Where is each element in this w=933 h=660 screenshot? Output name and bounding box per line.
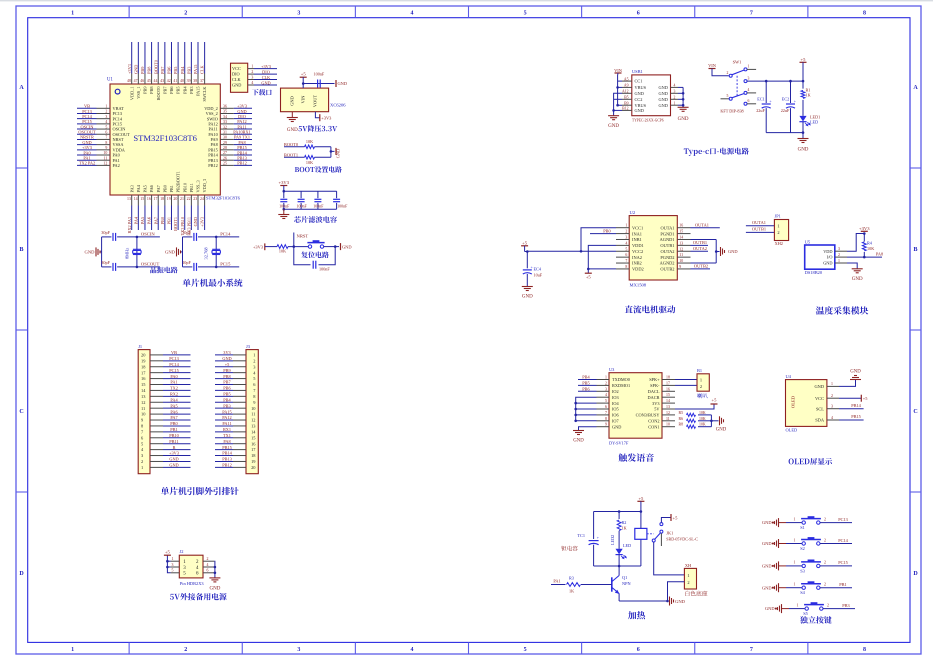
- svg-text:I/O: I/O: [827, 255, 833, 260]
- svg-text:JK1: JK1: [666, 531, 673, 536]
- svg-text:5: 5: [524, 11, 527, 17]
- connector JP1 body: [774, 220, 788, 241]
- svg-text:1: 1: [831, 382, 833, 386]
- svg-text:R8: R8: [679, 423, 684, 427]
- svg-text:4: 4: [105, 120, 107, 124]
- wire gnd bus right: [682, 87, 684, 107]
- wire switch out rail: [747, 80, 803, 82]
- mcu pin 15 PA5 (bottom): [144, 195, 146, 206]
- svg-text:IO3: IO3: [612, 395, 619, 400]
- svg-text:RX2: RX2: [170, 392, 178, 397]
- wire VDD to +3V3: [847, 234, 864, 252]
- wire net PA0: [77, 154, 97, 156]
- svg-text:30: 30: [223, 136, 227, 140]
- svg-text:17: 17: [666, 381, 670, 385]
- power port +5: [164, 554, 171, 556]
- svg-text:PB3: PB3: [186, 67, 191, 74]
- svg-text:2: 2: [824, 538, 826, 542]
- svg-text:7: 7: [105, 136, 107, 140]
- svg-text:VIN: VIN: [301, 95, 306, 104]
- wire bottom branch: [102, 266, 112, 268]
- crystal 32.768: [212, 249, 220, 254]
- button S2: [802, 542, 820, 545]
- svg-text:22uF: 22uF: [756, 108, 765, 113]
- wire net TX3 PB10: [184, 206, 186, 231]
- wire net OSCOUT: [77, 133, 97, 135]
- svg-text:14: 14: [134, 197, 138, 201]
- svg-text:1K: 1K: [806, 93, 811, 98]
- svg-text:B9: B9: [624, 101, 629, 105]
- connector J4 download port body: [231, 63, 248, 92]
- junction: [710, 420, 713, 423]
- mcu pin 44 BOOT0 (top): [157, 74, 159, 85]
- svg-text:CC1: CC1: [635, 79, 643, 84]
- svg-text:GND: GND: [336, 149, 341, 159]
- svg-text:PB12: PB12: [208, 163, 218, 168]
- junction: [618, 565, 621, 568]
- relay contact NC: [660, 530, 663, 533]
- wire net PA9 TX1: [234, 138, 252, 140]
- power port +3V3: [280, 185, 287, 187]
- wire net PB14: [234, 154, 252, 156]
- svg-text:PB11: PB11: [189, 183, 194, 192]
- wire net PC14: [77, 118, 97, 120]
- svg-text:XC6206: XC6206: [330, 103, 346, 108]
- svg-text:A: A: [19, 85, 24, 91]
- svg-text:5: 5: [172, 569, 174, 573]
- svg-text:A: A: [913, 85, 918, 91]
- svg-text:GND: GND: [169, 463, 178, 468]
- wire net +3V3: [163, 455, 191, 457]
- frame row tick: [16, 491, 28, 493]
- switch link dashed: [736, 76, 738, 97]
- ground: [283, 209, 285, 214]
- svg-text:PA7: PA7: [153, 216, 158, 224]
- connector B1 body: [697, 374, 709, 391]
- svg-text:1: 1: [794, 561, 796, 565]
- wire gnd to button: [782, 608, 790, 610]
- svg-text:OUTB1: OUTB1: [752, 226, 766, 231]
- svg-text:10K: 10K: [279, 249, 286, 254]
- frame column tick: [241, 6, 243, 18]
- wire net PB5: [578, 384, 597, 386]
- svg-text:TX1: TX1: [223, 433, 231, 438]
- wire OUTA1: [691, 227, 720, 229]
- svg-text:PA5: PA5: [170, 403, 177, 408]
- svg-text:GND: GND: [522, 295, 533, 300]
- wire R1 to LED1: [802, 100, 804, 116]
- svg-text:+3V3: +3V3: [279, 180, 290, 185]
- wire OUTB1: [691, 244, 709, 246]
- wire VCC to +5: [839, 397, 861, 399]
- svg-text:OUTA1: OUTA1: [695, 222, 709, 227]
- svg-text:GND: GND: [716, 428, 727, 433]
- svg-text:10: 10: [103, 151, 107, 155]
- mcu U1 pin1 marker: [115, 89, 120, 94]
- svg-text:18: 18: [160, 197, 164, 201]
- junction: [574, 408, 577, 411]
- frame column tick: [694, 6, 696, 18]
- caption temperature module: [816, 306, 868, 314]
- power port +5: [860, 395, 862, 402]
- svg-text:R6: R6: [679, 417, 684, 421]
- wire +3V3 to R4: [863, 234, 865, 242]
- svg-text:PA15: PA15: [222, 409, 231, 414]
- svg-text:GND: GND: [85, 250, 96, 255]
- connector XH body: [684, 568, 696, 589]
- svg-text:30pF: 30pF: [182, 230, 191, 235]
- svg-text:9: 9: [105, 146, 107, 150]
- capacitor 30pF: [194, 233, 197, 241]
- wire net PB1: [170, 206, 172, 231]
- svg-text:PB1: PB1: [839, 582, 846, 587]
- wire filter top rail: [284, 190, 337, 192]
- wire gnd to button: [779, 565, 787, 567]
- svg-text:R3: R3: [569, 576, 574, 581]
- svg-text:OUTA2: OUTA2: [660, 249, 674, 254]
- wire net PA5: [144, 206, 146, 231]
- svg-text:TYPEC-2SXX-GCP6: TYPEC-2SXX-GCP6: [632, 118, 664, 122]
- wire VDD2: [588, 268, 616, 270]
- svg-text:4: 4: [251, 81, 253, 85]
- svg-text:31: 31: [223, 130, 227, 134]
- wire net PB9: [215, 372, 233, 374]
- junction: [715, 250, 718, 253]
- mcu pin 5 OSCIN (left): [97, 128, 111, 130]
- wire collector: [618, 566, 620, 569]
- wire +5 to VIN: [302, 77, 304, 88]
- svg-text:VCC: VCC: [815, 396, 824, 401]
- svg-text:6: 6: [625, 253, 627, 257]
- resistor R2 1K: [617, 520, 621, 531]
- wire net PA15: [197, 42, 199, 74]
- svg-text:U4: U4: [786, 374, 792, 379]
- svg-text:INA2: INA2: [632, 255, 642, 260]
- wire net +3V3: [254, 68, 277, 70]
- svg-text:6: 6: [207, 569, 209, 573]
- wire to gnd: [802, 133, 804, 139]
- svg-text:4: 4: [674, 84, 676, 88]
- junction: [334, 245, 337, 248]
- wire crystal loop: [182, 237, 184, 267]
- mcu pin 34 SWIO (right): [220, 118, 234, 120]
- mcu pin 16 PA6 (bottom): [151, 195, 153, 206]
- power port +5: [637, 500, 644, 502]
- mcu pin 38 PA15 (top): [197, 74, 199, 85]
- resistor R7 10K: [305, 156, 315, 160]
- svg-text:A12: A12: [622, 90, 629, 94]
- wire net PC14: [216, 236, 239, 238]
- svg-text:100nF: 100nF: [314, 72, 325, 77]
- connector USB1 body: [632, 75, 671, 116]
- svg-text:A5: A5: [624, 77, 629, 81]
- svg-text:CON3/BUSY: CON3/BUSY: [636, 413, 660, 418]
- wire OUTA2: [691, 250, 709, 252]
- svg-text:6: 6: [637, 647, 640, 653]
- wire VIN bus: [618, 73, 622, 105]
- svg-text:2: 2: [184, 647, 187, 653]
- button S4: [802, 586, 820, 589]
- svg-text:PB0: PB0: [162, 185, 167, 192]
- wire net PB12: [215, 466, 233, 468]
- svg-text:43: 43: [160, 79, 164, 83]
- svg-text:BOOT0: BOOT0: [156, 87, 161, 101]
- mcu pin 30 PA9 (right): [220, 138, 234, 140]
- frame column tick: [354, 6, 356, 18]
- mcu pin 11 PA1 (left): [97, 159, 111, 161]
- capacitor C6 100nF: [313, 261, 316, 269]
- svg-text:PA1: PA1: [553, 578, 560, 583]
- junction: [283, 208, 286, 211]
- svg-text:18: 18: [666, 376, 670, 380]
- svg-text:2: 2: [253, 358, 255, 363]
- svg-text:1K: 1K: [622, 525, 627, 530]
- svg-text:BOOT0: BOOT0: [284, 142, 299, 147]
- svg-text:PB15: PB15: [222, 445, 232, 450]
- wire net RX2: [163, 395, 191, 397]
- svg-text:1: 1: [700, 377, 702, 382]
- svg-text:+3V3: +3V3: [859, 226, 870, 231]
- svg-text:LED: LED: [810, 120, 818, 125]
- mcu U1 body: [110, 84, 220, 195]
- svg-text:OUTA2: OUTA2: [693, 246, 707, 251]
- svg-text:PB4: PB4: [582, 375, 590, 380]
- svg-text:GND: GND: [193, 217, 198, 226]
- svg-text:NRST: NRST: [297, 234, 309, 239]
- svg-text:GND: GND: [338, 81, 348, 86]
- power port +3V3: [861, 230, 868, 232]
- svg-text:3: 3: [625, 235, 627, 239]
- wire net PA10RX1: [234, 133, 252, 135]
- svg-text:PC15: PC15: [220, 261, 231, 266]
- mcu pin 3 PC14 (left): [97, 118, 111, 120]
- svg-text:R5: R5: [679, 411, 684, 415]
- svg-text:J2: J2: [180, 549, 184, 554]
- mcu pin 24 VDD_3 (bottom): [204, 195, 206, 206]
- wire VDD1 branch: [588, 245, 616, 269]
- svg-text:PB7: PB7: [162, 86, 167, 94]
- junction: [215, 236, 218, 239]
- junction: [802, 131, 805, 134]
- svg-text:13: 13: [666, 405, 670, 409]
- svg-text:PA8: PA8: [223, 439, 230, 444]
- wire LED down: [618, 555, 620, 566]
- svg-text:PB4: PB4: [182, 86, 187, 94]
- mcu pin 4 PC15 (left): [97, 123, 111, 125]
- svg-text:34: 34: [223, 115, 227, 119]
- wire net PA11: [215, 425, 233, 427]
- svg-text:PB8: PB8: [149, 87, 154, 94]
- wire XH pin2 to gnd: [668, 582, 685, 601]
- svg-text:4: 4: [410, 647, 413, 653]
- wire net GND: [77, 144, 97, 146]
- svg-text:PB13: PB13: [222, 457, 232, 462]
- svg-text:PC15: PC15: [169, 368, 179, 373]
- wire +5 to rail: [524, 246, 526, 252]
- mcu pin 2 PC13 (left): [97, 112, 111, 114]
- svg-text:B: B: [913, 247, 917, 253]
- wire gnd bus right: [213, 561, 216, 578]
- wire net PC13: [77, 112, 97, 114]
- svg-text:2: 2: [700, 384, 702, 389]
- svg-text:11: 11: [104, 156, 108, 160]
- svg-text:24: 24: [200, 197, 204, 201]
- svg-text:U2: U2: [630, 210, 636, 215]
- wire VIN to switch: [712, 69, 729, 76]
- svg-text:PB0: PB0: [603, 228, 610, 233]
- svg-text:3: 3: [172, 563, 174, 567]
- wire net GND: [163, 466, 191, 468]
- svg-text:GND: GND: [612, 424, 621, 429]
- svg-text:CLK: CLK: [262, 75, 271, 80]
- mcu pin 47 VSS_1 (top): [137, 74, 139, 85]
- wire net GND: [254, 84, 277, 86]
- svg-text:2: 2: [141, 459, 143, 464]
- svg-text:S3: S3: [800, 568, 805, 573]
- wire to gnd: [711, 420, 718, 422]
- wire to gnd bus: [315, 146, 331, 148]
- svg-text:RXDMO1: RXDMO1: [612, 383, 630, 388]
- transistor Q1 NPN: [611, 577, 613, 591]
- svg-text:41: 41: [173, 79, 177, 83]
- svg-text:PB7: PB7: [160, 66, 165, 74]
- svg-text:CLK: CLK: [232, 77, 241, 82]
- svg-text:VDD2: VDD2: [632, 267, 644, 272]
- svg-text:26: 26: [223, 156, 227, 160]
- svg-text:PA11: PA11: [222, 421, 231, 426]
- svg-text:1: 1: [141, 465, 143, 470]
- wire net PB8: [215, 378, 233, 380]
- svg-text:PA7: PA7: [170, 415, 178, 420]
- svg-text:1: 1: [674, 101, 676, 105]
- svg-text:Q1: Q1: [622, 575, 627, 580]
- svg-text:PB14: PB14: [222, 451, 232, 456]
- svg-text:35: 35: [223, 110, 227, 114]
- svg-text:SPK+: SPK+: [649, 377, 660, 382]
- svg-text:STM32F103C8T6: STM32F103C8T6: [206, 196, 241, 201]
- svg-text:1: 1: [794, 538, 796, 542]
- switch SW1 pin3: [744, 80, 747, 83]
- power port GND: [335, 148, 337, 155]
- svg-text:PB1: PB1: [170, 427, 177, 432]
- mcu pin 19 PB1 (bottom): [170, 195, 172, 206]
- wire CC2 stub: [614, 98, 622, 100]
- wire net PB6: [578, 390, 597, 392]
- svg-text:10K: 10K: [306, 160, 313, 165]
- svg-text:CON2: CON2: [648, 419, 659, 424]
- svg-text:SW1: SW1: [733, 60, 742, 65]
- relay contact NO: [660, 523, 663, 526]
- svg-text:+3V3: +3V3: [169, 451, 179, 456]
- caption crystal circuit: [150, 267, 177, 274]
- wire net PA7: [157, 206, 159, 231]
- reset button S6: [308, 245, 323, 248]
- wire net PB6: [170, 42, 172, 74]
- wire GND pin down: [291, 112, 293, 118]
- svg-text:DIO: DIO: [262, 69, 270, 74]
- svg-text:36: 36: [223, 105, 227, 109]
- wire net PB0: [163, 425, 191, 427]
- svg-text:11: 11: [679, 253, 683, 257]
- svg-text:10K: 10K: [867, 246, 874, 251]
- svg-text:3: 3: [838, 247, 840, 251]
- wire net GND: [197, 206, 199, 231]
- svg-text:PA15: PA15: [193, 65, 198, 74]
- svg-text:PB10: PB10: [169, 433, 179, 438]
- svg-text:VCC1: VCC1: [632, 225, 643, 230]
- wire net OUTB1 to JP1: [746, 231, 775, 233]
- svg-text:4: 4: [625, 241, 627, 245]
- svg-text:+5: +5: [638, 496, 644, 501]
- svg-text:4: 4: [410, 11, 413, 17]
- mcu pin 40 PB4 (top): [184, 74, 186, 85]
- svg-text:IO2: IO2: [612, 389, 619, 394]
- resistor R6 10K: [305, 145, 315, 149]
- svg-text:2: 2: [674, 95, 676, 99]
- wire net PB1: [163, 431, 191, 433]
- svg-text:+5: +5: [522, 240, 528, 245]
- caption OLED display: [789, 458, 833, 465]
- resistor R1 1K: [801, 90, 805, 98]
- svg-text:B12: B12: [622, 107, 628, 111]
- mcu pin 42 PB6 (top): [170, 74, 172, 85]
- connector J3 header body: [246, 350, 258, 474]
- svg-text:VBUS: VBUS: [635, 85, 647, 90]
- svg-text:PB3: PB3: [842, 603, 849, 608]
- svg-text:8: 8: [863, 11, 866, 17]
- svg-text:PA6: PA6: [149, 184, 154, 192]
- svg-text:IO7: IO7: [612, 419, 620, 424]
- capacitor 30pF: [113, 233, 116, 241]
- junction: [283, 190, 286, 193]
- wire BOOT0: [284, 146, 305, 148]
- svg-text:4: 4: [207, 563, 209, 567]
- svg-text:40: 40: [180, 79, 184, 83]
- LED D2: [616, 549, 623, 555]
- caption MCU minimal system: [183, 279, 243, 287]
- svg-text:PB9: PB9: [140, 67, 145, 74]
- svg-text:+5: +5: [801, 57, 807, 62]
- wire filter bottom rail: [284, 208, 337, 210]
- svg-text:PB2BOOT1: PB2BOOT1: [176, 171, 181, 192]
- svg-text:GND: GND: [658, 97, 667, 102]
- svg-text:+5: +5: [673, 515, 679, 520]
- svg-text:NPN: NPN: [622, 581, 631, 586]
- svg-text:46: 46: [140, 79, 144, 83]
- mcu pin 26 PB13 (right): [220, 159, 234, 161]
- capacitor C1 100nF: [283, 191, 285, 198]
- mcu pin 39 PB3 (top): [190, 74, 192, 85]
- wire top rail: [594, 511, 641, 513]
- ground: [608, 116, 619, 120]
- wire net PC13: [163, 360, 191, 362]
- svg-text:1: 1: [625, 224, 627, 228]
- svg-text:GND: GND: [342, 244, 352, 249]
- svg-text:32.768: 32.768: [204, 247, 209, 260]
- frame column tick: [128, 6, 130, 18]
- wire SPK- to B1: [675, 384, 697, 386]
- junction: [616, 86, 619, 89]
- svg-text:11: 11: [666, 417, 670, 421]
- svg-text:JP1: JP1: [775, 214, 781, 219]
- svg-text:DACR: DACR: [648, 395, 660, 400]
- svg-text:GND: GND: [850, 370, 861, 375]
- svg-text:+5: +5: [586, 275, 592, 280]
- wire collector rail: [594, 565, 641, 567]
- wire gnd bus vertical: [715, 239, 717, 263]
- junction: [330, 150, 333, 153]
- capacitor EC1 22uF: [765, 81, 767, 103]
